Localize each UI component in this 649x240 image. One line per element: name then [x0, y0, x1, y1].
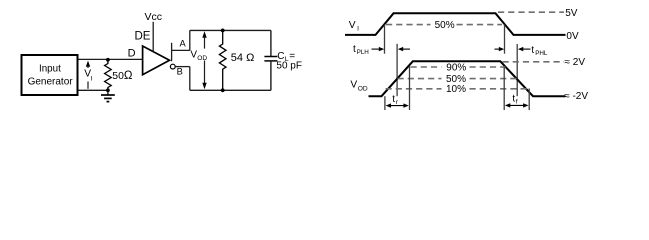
label VI waveform — [349, 20, 359, 33]
wire B — [175, 67, 190, 91]
svg-text:PLH: PLH — [357, 49, 370, 56]
svg-text:90%: 90% — [446, 63, 466, 74]
label 0V — [566, 31, 579, 42]
resistor 54ohm — [219, 30, 254, 90]
svg-text:OD: OD — [197, 55, 207, 62]
VOD waveform trace — [369, 61, 566, 96]
inverting bubble on B — [170, 64, 175, 69]
svg-text:50 pF: 50 pF — [276, 60, 302, 71]
label tf with arrows — [505, 93, 529, 107]
junction dot top of 54ohm — [221, 29, 225, 33]
label D — [128, 48, 136, 60]
svg-text:B: B — [177, 66, 183, 76]
dashed 2V level — [503, 57, 586, 68]
svg-text:t: t — [531, 45, 534, 56]
label A — [180, 38, 187, 48]
svg-text:t: t — [353, 44, 356, 55]
svg-text:50Ω: 50Ω — [112, 70, 133, 82]
svg-text:r: r — [396, 99, 398, 106]
svg-text:A: A — [180, 38, 187, 48]
VI waveform trace — [345, 13, 566, 35]
Vcc supply lead — [144, 11, 162, 52]
node VI arrow — [84, 61, 93, 89]
dashed 10% level — [386, 84, 530, 95]
label tPLH with arrow — [353, 44, 410, 56]
svg-text:OD: OD — [358, 86, 368, 93]
label tPHL with arrow — [495, 45, 548, 57]
svg-text:50%: 50% — [435, 20, 455, 31]
dashed 50% level VI — [386, 20, 502, 31]
load top rail — [190, 29, 271, 31]
dashed 5V level — [498, 8, 578, 19]
junction dot top of 50ohm — [106, 58, 110, 62]
input generator box — [22, 55, 78, 95]
svg-text:I: I — [91, 75, 93, 82]
wire bottom return — [79, 89, 108, 91]
load bottom rail — [190, 89, 271, 91]
label -2V level — [564, 91, 588, 102]
pin A stub — [171, 43, 173, 61]
svg-text:V: V — [350, 79, 357, 90]
svg-text:V: V — [349, 20, 356, 31]
label tr with arrows — [386, 94, 409, 108]
svg-text:Vcc: Vcc — [144, 11, 162, 23]
label VOD waveform — [350, 79, 368, 92]
svg-text:DE: DE — [135, 31, 151, 43]
node VOD arrow — [190, 31, 207, 89]
svg-text:5V: 5V — [565, 8, 578, 19]
svg-text:0V: 0V — [566, 31, 579, 42]
wire A — [172, 30, 190, 50]
svg-text:Input: Input — [39, 63, 61, 74]
junction dot bottom of 50ohm — [106, 88, 110, 92]
svg-text:≈ -2V: ≈ -2V — [564, 91, 588, 102]
dashed 50% level VOD — [398, 74, 517, 85]
ref line VI rise 50% — [384, 25, 386, 54]
label DE — [135, 31, 151, 43]
ref line VOD rise 50% — [396, 44, 398, 96]
svg-text:≈ 2V: ≈ 2V — [565, 57, 586, 68]
capacitor CL — [264, 30, 277, 90]
tr measurement bars — [385, 67, 410, 111]
ground — [101, 90, 115, 101]
tf measurement bars — [504, 67, 529, 110]
junction dot bottom of 54ohm — [221, 88, 225, 92]
resistor 50ohm — [105, 60, 133, 91]
svg-text:t: t — [392, 94, 395, 105]
svg-text:10%: 10% — [446, 84, 466, 95]
ref line VOD fall 50% — [516, 44, 518, 96]
label B — [177, 66, 183, 76]
wire D input — [79, 58, 143, 60]
svg-text:PHL: PHL — [535, 50, 548, 57]
svg-text:D: D — [128, 48, 136, 60]
ref line VI fall 50% — [504, 25, 506, 54]
op-amp driver U1 triangle — [143, 46, 170, 75]
svg-text:f: f — [516, 99, 518, 106]
svg-text:I: I — [357, 26, 359, 33]
svg-text:Generator: Generator — [28, 77, 74, 88]
label CL value — [276, 51, 302, 72]
svg-text:54 Ω: 54 Ω — [231, 52, 255, 64]
dashed 90% level — [411, 63, 506, 74]
